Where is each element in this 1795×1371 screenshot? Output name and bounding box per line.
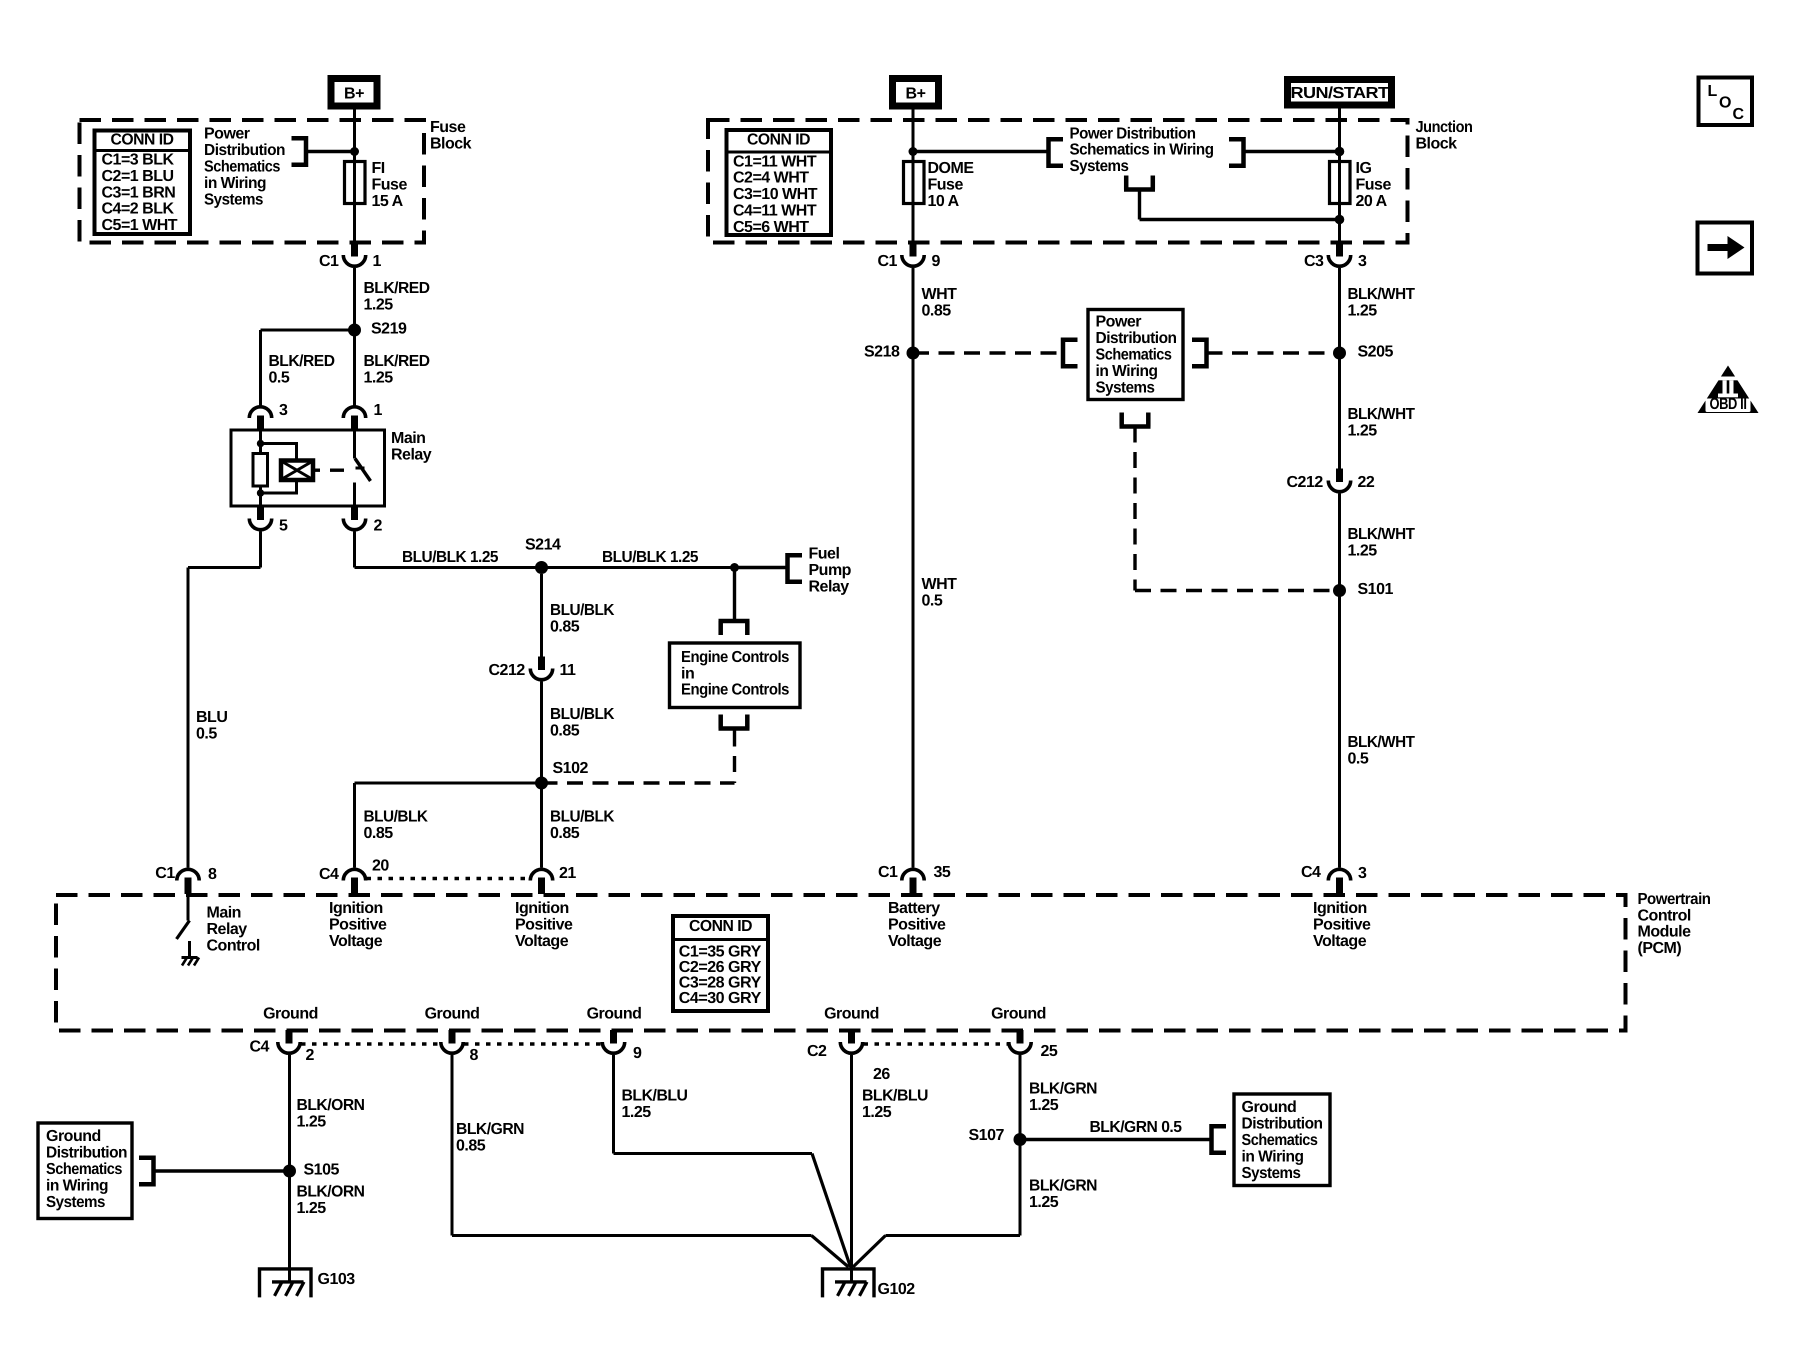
svg-text:BLK/GRN: BLK/GRN <box>456 1121 524 1138</box>
dotted link: PCM pins 2-8 <box>301 1042 440 1045</box>
svg-text:C1=35 GRY: C1=35 GRY <box>679 943 762 960</box>
relay coil (X box) <box>281 461 313 481</box>
connector C1 pin 35 (PCM, Battery Positive Voltage) <box>902 869 924 880</box>
wire: pin 8 run right <box>452 1234 812 1237</box>
svg-text:BLK/WHT: BLK/WHT <box>1348 406 1416 423</box>
svg-text:BLK/GRN 0.5: BLK/GRN 0.5 <box>1090 1119 1183 1136</box>
svg-text:S107: S107 <box>969 1127 1005 1144</box>
svg-text:Schematics: Schematics <box>1096 347 1173 364</box>
svg-text:G103: G103 <box>318 1271 356 1288</box>
wire: B+ to DOME fuse and connector C1-9 <box>912 110 915 244</box>
svg-text:BLU/BLK 1.25: BLU/BLK 1.25 <box>402 549 499 566</box>
splice S107 <box>1014 1133 1027 1146</box>
svg-text:BLK/ORN: BLK/ORN <box>297 1184 365 1201</box>
wire: bracket down and across to IG fuse output <box>1138 190 1141 220</box>
connector pin 5 of Main Relay <box>257 506 264 520</box>
connector pin 9 (PCM Ground) <box>610 1030 617 1044</box>
svg-text:22: 22 <box>1358 474 1375 491</box>
relay mechanical link (dashed) <box>313 469 320 472</box>
svg-text:Fuse: Fuse <box>1356 177 1392 194</box>
splice S219 <box>348 324 361 337</box>
svg-text:C212: C212 <box>489 662 526 679</box>
connector C1 pin 9 (junction block) <box>910 243 917 257</box>
svg-text:Ground: Ground <box>263 1006 318 1023</box>
svg-text:C4=2 BLK: C4=2 BLK <box>102 201 175 218</box>
svg-text:BLK/RED: BLK/RED <box>364 353 430 370</box>
svg-text:Ground: Ground <box>587 1006 642 1023</box>
svg-text:OBD II: OBD II <box>1710 396 1747 413</box>
reference box Engine Controls in Engine Controls <box>670 643 801 708</box>
relay switch contact (from pin 1) <box>353 430 356 459</box>
svg-text:1: 1 <box>373 253 382 270</box>
connector table CONN ID (junction block) <box>727 130 832 235</box>
svg-text:35: 35 <box>934 864 951 881</box>
relay coil feed wire (pin 3 internal) <box>259 430 262 454</box>
fuse FI 15A symbol <box>345 162 366 204</box>
svg-text:BLU/BLK: BLU/BLK <box>364 809 429 826</box>
svg-text:3: 3 <box>1358 253 1367 270</box>
wire: pin 8 diagonal to G102 <box>812 1236 849 1268</box>
svg-text:C4: C4 <box>250 1039 270 1056</box>
svg-text:C2=26 GRY: C2=26 GRY <box>679 959 762 976</box>
connector C212 pin 11 <box>538 657 545 671</box>
svg-text:25: 25 <box>1041 1043 1058 1060</box>
svg-text:0.85: 0.85 <box>550 723 580 740</box>
svg-text:1: 1 <box>374 402 383 419</box>
svg-text:1.25: 1.25 <box>1029 1097 1059 1114</box>
splice S214 <box>535 561 548 574</box>
svg-text:BLK/WHT: BLK/WHT <box>1348 286 1416 303</box>
off-page bracket to Fuel Pump Relay <box>788 553 803 584</box>
svg-text:0.85: 0.85 <box>550 825 580 842</box>
wire: S107 leg run left <box>886 1234 1021 1237</box>
svg-text:26: 26 <box>873 1066 890 1083</box>
connector pin 25 (PCM Ground) <box>1017 1030 1024 1044</box>
svg-text:1.25: 1.25 <box>297 1114 327 1131</box>
reference box Ground Distribution Schematics in Wiring Systems (right) <box>1234 1094 1330 1186</box>
svg-text:(PCM): (PCM) <box>1638 940 1682 957</box>
svg-text:C1: C1 <box>878 864 898 881</box>
off-page bracket (left) of Power Distribution box <box>1063 338 1078 369</box>
fuse IG 20A symbol <box>1330 162 1351 204</box>
wire: RUN/START feed to bracket <box>1244 150 1340 153</box>
svg-text:21: 21 <box>559 865 576 882</box>
svg-text:C212: C212 <box>1287 474 1324 491</box>
svg-text:C2: C2 <box>807 1043 827 1060</box>
wire: C1-9 to S218 (WHT) <box>912 268 915 353</box>
svg-text:1.25: 1.25 <box>622 1104 652 1121</box>
svg-text:BLK/GRN: BLK/GRN <box>1029 1081 1097 1098</box>
svg-text:Block: Block <box>1416 136 1458 153</box>
wire: pin 8 down (BLK/GRN) <box>451 1055 454 1236</box>
svg-text:S102: S102 <box>553 760 589 777</box>
svg-text:BLK/ORN: BLK/ORN <box>297 1097 365 1114</box>
dashed wire: bracket to S205 <box>1207 351 1340 354</box>
wire: B+ to FI fuse and connector C1-1 <box>353 110 356 244</box>
resistor (relay coil suppression) <box>253 454 268 487</box>
connector pin 21 (PCM, Ignition Positive Voltage) <box>530 869 552 880</box>
svg-text:C1: C1 <box>319 253 339 270</box>
dotted link: PCM pins 20-21 <box>367 877 530 880</box>
svg-text:Relay: Relay <box>391 447 432 464</box>
svg-text:Systems: Systems <box>1096 379 1156 396</box>
svg-text:Fuse: Fuse <box>430 119 466 136</box>
connector C4 pin 20 (PCM, Ignition Positive Voltage) <box>343 869 365 880</box>
svg-text:CONN ID: CONN ID <box>747 132 810 149</box>
svg-text:Positive: Positive <box>329 917 387 934</box>
svg-text:Voltage: Voltage <box>888 933 942 950</box>
svg-text:8: 8 <box>470 1047 479 1064</box>
svg-text:Module: Module <box>1638 924 1692 941</box>
svg-text:in Wiring: in Wiring <box>46 1177 108 1194</box>
off-page bracket (right) of Power Distribution box <box>1192 338 1207 369</box>
dashed wire: Engine Controls down <box>733 731 736 784</box>
svg-text:15 A: 15 A <box>372 193 404 210</box>
svg-text:Systems: Systems <box>1242 1165 1302 1182</box>
power feed RUN/START terminal <box>1288 80 1392 106</box>
connector table CONN ID (PCM) <box>673 916 768 1011</box>
wire: C212-22 down to S101 <box>1338 494 1341 591</box>
svg-text:Positive: Positive <box>515 917 573 934</box>
connector table CONN ID (fuse block) <box>95 131 191 235</box>
connector pin 8 (PCM Ground) <box>449 1030 456 1044</box>
relay internal junction upper <box>257 440 264 447</box>
svg-text:BLK/RED: BLK/RED <box>364 280 430 297</box>
svg-text:Fuel: Fuel <box>809 546 840 563</box>
wire: relay pin 2 down <box>353 532 356 568</box>
svg-text:Voltage: Voltage <box>1313 933 1367 950</box>
wire: S214 down to C212-11 (BLU/BLK) <box>540 574 543 662</box>
power feed B+ terminal (junction block) <box>893 79 939 107</box>
splice S218 <box>907 347 920 360</box>
svg-text:C2=1 BLU: C2=1 BLU <box>102 168 174 185</box>
svg-text:3: 3 <box>1358 865 1367 882</box>
svg-text:BLU/BLK 1.25: BLU/BLK 1.25 <box>602 549 699 566</box>
svg-text:Voltage: Voltage <box>515 933 569 950</box>
off-page bracket to Power Distribution Schematics (junction block) <box>1049 137 1064 168</box>
connector pin 2 of Main Relay <box>351 506 358 520</box>
junction dot on IG fuse output <box>1335 215 1345 225</box>
svg-text:5: 5 <box>279 518 288 535</box>
svg-text:0.85: 0.85 <box>922 303 952 320</box>
svg-text:CONN ID: CONN ID <box>689 918 752 935</box>
svg-text:BLU: BLU <box>196 709 227 726</box>
svg-text:B+: B+ <box>344 86 364 103</box>
svg-text:BLU/BLK: BLU/BLK <box>550 706 615 723</box>
svg-text:1.25: 1.25 <box>1029 1194 1059 1211</box>
svg-text:1.25: 1.25 <box>1348 423 1378 440</box>
ground G103 <box>260 1269 312 1298</box>
svg-text:S205: S205 <box>1358 344 1394 361</box>
svg-text:C3=10 WHT: C3=10 WHT <box>733 186 818 203</box>
wire: C1-1 to S219 (BLK/RED) <box>353 268 356 330</box>
reference box Ground Distribution Schematics in Wiring Systems (left) <box>38 1123 132 1219</box>
svg-text:C1=11 WHT: C1=11 WHT <box>733 153 817 170</box>
relay internal junction lower <box>257 489 264 496</box>
fuse DOME 10A symbol <box>904 162 925 204</box>
wire: pin 9 diagonal to G102 <box>812 1154 851 1268</box>
svg-text:BLU/BLK: BLU/BLK <box>550 602 615 619</box>
svg-text:C1: C1 <box>878 253 898 270</box>
svg-text:Ignition: Ignition <box>329 900 383 917</box>
icon forward arrow box <box>1698 223 1753 274</box>
svg-text:Distribution: Distribution <box>204 142 285 159</box>
svg-text:Battery: Battery <box>888 900 940 917</box>
svg-text:Control: Control <box>207 938 260 955</box>
wire: S107 to Ground Distribution bracket (BLK/GRN) <box>1020 1138 1211 1141</box>
svg-text:0.5: 0.5 <box>269 370 290 387</box>
svg-text:Ground: Ground <box>1242 1099 1297 1116</box>
svg-text:Ignition: Ignition <box>515 900 569 917</box>
wire: pin 25 down to S107 (BLK/GRN) <box>1019 1055 1022 1236</box>
svg-text:BLU/BLK: BLU/BLK <box>550 809 615 826</box>
svg-text:B+: B+ <box>906 86 926 103</box>
svg-text:0.5: 0.5 <box>922 593 943 610</box>
svg-text:S219: S219 <box>371 321 407 338</box>
splice S101 <box>1333 584 1346 597</box>
splice S105 <box>283 1165 296 1178</box>
dashed wire: box down to S101 level <box>1133 427 1136 591</box>
svg-text:1.25: 1.25 <box>364 370 394 387</box>
svg-text:C: C <box>1733 106 1745 123</box>
relay switch blade <box>355 459 371 482</box>
svg-text:1.25: 1.25 <box>1348 303 1378 320</box>
svg-text:Voltage: Voltage <box>329 933 383 950</box>
svg-text:Ground: Ground <box>824 1006 879 1023</box>
svg-text:Ground: Ground <box>991 1006 1046 1023</box>
wire: Ground Distribution bracket to S105 <box>154 1169 290 1172</box>
svg-text:C1=3 BLK: C1=3 BLK <box>102 152 175 169</box>
svg-text:Block: Block <box>430 136 472 153</box>
power feed B+ terminal (fuse block) <box>331 79 377 107</box>
svg-text:S101: S101 <box>1358 581 1394 598</box>
svg-text:10 A: 10 A <box>928 193 960 210</box>
svg-text:1.25: 1.25 <box>297 1200 327 1217</box>
wire: C212-11 down to S102 <box>540 682 543 784</box>
wire: RUN/START to IG fuse and connector C3-3 <box>1338 109 1341 244</box>
connector pin 3 of Main Relay <box>249 407 271 418</box>
icon LOC box <box>1699 78 1753 126</box>
svg-text:S105: S105 <box>304 1162 340 1179</box>
svg-text:in Wiring: in Wiring <box>1096 363 1158 380</box>
svg-text:G102: G102 <box>878 1281 916 1298</box>
dotted link: PCM pins 8-9 <box>464 1042 602 1045</box>
svg-text:C2=4 WHT: C2=4 WHT <box>733 170 809 187</box>
connector pin 1 of Main Relay <box>343 407 365 418</box>
ground G102 <box>823 1269 875 1298</box>
svg-text:Power: Power <box>1096 314 1142 331</box>
connector C1 pin 1 (fuse block output) <box>351 243 358 257</box>
svg-text:Main: Main <box>391 430 425 447</box>
svg-text:8: 8 <box>208 866 217 883</box>
svg-text:BLK/BLU: BLK/BLU <box>622 1088 688 1105</box>
wire: S219 down to relay pin 1 <box>353 330 356 406</box>
PCM internal chassis ground <box>182 956 198 959</box>
svg-text:Systems: Systems <box>204 191 264 208</box>
relay coil branch wiring <box>261 444 297 494</box>
svg-text:C5=6 WHT: C5=6 WHT <box>733 219 809 236</box>
icon OBD II triangle <box>1698 366 1759 414</box>
splice S102 <box>535 777 548 790</box>
junction dot on RUN/START feed <box>1335 147 1345 157</box>
svg-text:Engine Controls: Engine Controls <box>681 682 790 699</box>
reference box Power Distribution Schematics in Wiring Systems <box>1088 310 1183 400</box>
wire: fuse block feed to Power Distribution bracket <box>307 150 355 153</box>
svg-text:WHT: WHT <box>922 286 958 303</box>
svg-text:20: 20 <box>372 858 389 875</box>
svg-text:2: 2 <box>306 1047 315 1064</box>
svg-text:0.5: 0.5 <box>196 726 217 743</box>
wire: pin 9 down (BLK/BLU) <box>612 1055 615 1154</box>
svg-text:3: 3 <box>279 402 288 419</box>
svg-text:1.25: 1.25 <box>862 1104 892 1121</box>
svg-text:2: 2 <box>374 518 383 535</box>
wire: S102 branch left <box>355 782 542 785</box>
PCM internal switch (Main Relay Control) <box>187 895 190 921</box>
svg-text:BLK/BLU: BLK/BLU <box>862 1088 928 1105</box>
svg-text:Positive: Positive <box>1313 917 1371 934</box>
svg-text:IG: IG <box>1356 160 1372 177</box>
svg-text:BLK/WHT: BLK/WHT <box>1348 734 1416 751</box>
wire: tap to Fuel Pump Relay bracket <box>735 566 788 569</box>
off-page bracket to Ground Distribution Schematics (right) <box>1212 1124 1227 1155</box>
wire: C3-3 to S205 (BLK/WHT) <box>1338 268 1341 353</box>
splice S205 <box>1333 347 1346 360</box>
svg-text:in Wiring: in Wiring <box>204 175 266 192</box>
svg-text:Systems: Systems <box>1070 158 1130 175</box>
svg-text:0.5: 0.5 <box>1348 751 1369 768</box>
svg-text:in: in <box>681 665 694 682</box>
junction dot: fuel pump relay tap <box>730 563 739 572</box>
svg-text:C4: C4 <box>319 866 339 883</box>
svg-text:Schematics in Wiring: Schematics in Wiring <box>1070 142 1214 159</box>
wire: S219 branch left <box>261 329 355 332</box>
off-page bracket (bottom) of Engine Controls <box>719 715 750 729</box>
svg-text:11: 11 <box>560 662 577 679</box>
svg-text:Positive: Positive <box>888 917 946 934</box>
connector C3 pin 3 <box>1336 243 1343 257</box>
svg-text:9: 9 <box>633 1045 642 1062</box>
svg-text:Distribution: Distribution <box>46 1145 127 1162</box>
svg-text:C4=11 WHT: C4=11 WHT <box>733 203 817 220</box>
off-page bracket to Power Distribution Schematics (fuse block) <box>292 136 307 167</box>
connector C4 pin 3 (PCM, Ignition Positive Voltage) <box>1328 869 1350 880</box>
svg-text:Relay: Relay <box>809 579 850 596</box>
svg-text:Relay: Relay <box>207 921 248 938</box>
svg-text:WHT: WHT <box>922 576 958 593</box>
svg-text:0.85: 0.85 <box>364 825 394 842</box>
connector C212 pin 22 <box>1336 469 1343 483</box>
dotted link: PCM pins 26-25 <box>864 1042 1009 1045</box>
svg-text:C4: C4 <box>1301 864 1321 881</box>
relay K1 Main Relay box <box>231 430 385 506</box>
svg-text:Engine Controls: Engine Controls <box>681 649 790 666</box>
svg-text:Power Distribution: Power Distribution <box>1070 125 1196 142</box>
svg-text:BLK/GRN: BLK/GRN <box>1029 1178 1097 1195</box>
connector C1 pin 8 (PCM, Main Relay Control) <box>177 869 199 880</box>
svg-text:9: 9 <box>932 253 941 270</box>
svg-text:Control: Control <box>1638 907 1691 924</box>
svg-text:C3: C3 <box>1304 253 1324 270</box>
svg-text:Fuse: Fuse <box>372 177 408 194</box>
svg-text:S214: S214 <box>525 537 561 554</box>
svg-text:Powertrain: Powertrain <box>1638 891 1711 908</box>
svg-text:C3=28 GRY: C3=28 GRY <box>679 975 762 992</box>
svg-text:Ground: Ground <box>46 1128 101 1145</box>
svg-text:Main: Main <box>207 905 241 922</box>
dashed wire: across to S101 <box>1135 589 1340 592</box>
off-page bracket to Ground Distribution Schematics (left) <box>139 1156 154 1187</box>
wire: tap down to Engine Controls bracket <box>733 568 736 621</box>
svg-text:BLK/WHT: BLK/WHT <box>1348 526 1416 543</box>
svg-text:Power: Power <box>204 125 250 142</box>
svg-text:L: L <box>1708 83 1718 100</box>
svg-text:Schematics: Schematics <box>204 158 281 175</box>
svg-text:Schematics: Schematics <box>46 1161 123 1178</box>
svg-text:1.25: 1.25 <box>1348 543 1378 560</box>
svg-text:Ignition: Ignition <box>1313 900 1367 917</box>
svg-text:Ground: Ground <box>425 1006 480 1023</box>
svg-text:FI: FI <box>372 160 385 177</box>
svg-text:O: O <box>1719 95 1731 112</box>
svg-text:Fuse: Fuse <box>928 177 964 194</box>
svg-text:Distribution: Distribution <box>1242 1116 1323 1133</box>
connector C4 pin 2 (PCM Ground) <box>286 1030 293 1044</box>
wire: branch down to PCM C4-20 <box>353 783 356 868</box>
svg-text:1.25: 1.25 <box>364 297 394 314</box>
svg-text:in Wiring: in Wiring <box>1242 1148 1304 1165</box>
off-page bracket (top) to Engine Controls <box>719 621 750 635</box>
junction dot on B+ feed (fuse block) <box>350 147 359 156</box>
wire: S219 down to relay pin 3 <box>259 330 262 406</box>
wire: S218 down to PCM C1-35 (WHT) <box>912 353 915 868</box>
wire: relay pin 5 down (BLU) <box>259 532 262 568</box>
svg-text:C4=30 GRY: C4=30 GRY <box>679 990 762 1007</box>
wire: S107 leg diagonal to G102 <box>853 1236 886 1268</box>
svg-text:RUN/START: RUN/START <box>1291 85 1390 102</box>
wire: C4-2 down to S105 and G103 (BLK/ORN) <box>288 1055 291 1282</box>
relay internal wire lower <box>259 486 262 506</box>
wire: pin 9 run right <box>614 1152 813 1155</box>
wire: DOME feed to Power Distribution bracket <box>913 150 1049 153</box>
junction block enclosure (dashed) <box>708 120 1408 243</box>
wire: pin 5 run left <box>188 566 261 569</box>
svg-text:S218: S218 <box>864 344 900 361</box>
dashed wire: S218 to Power Distribution bracket <box>913 351 1063 354</box>
svg-text:C1: C1 <box>155 865 175 882</box>
module enclosure Powertrain Control Module (dashed) <box>56 895 1626 1031</box>
svg-text:C5=1 WHT: C5=1 WHT <box>102 217 178 234</box>
svg-text:DOME: DOME <box>928 160 975 177</box>
svg-text:Junction: Junction <box>1416 119 1473 136</box>
svg-text:20 A: 20 A <box>1356 193 1388 210</box>
wire: S102 down to PCM pin 21 <box>540 783 543 868</box>
wire: S101 down to PCM C4-3 (BLK/WHT) <box>1338 591 1341 868</box>
off-page bracket (right) of junction block label <box>1229 137 1244 168</box>
wire: left drop to PCM C1-8 <box>187 568 190 868</box>
fuse block enclosure (dashed) <box>80 120 425 243</box>
svg-text:Systems: Systems <box>46 1194 106 1211</box>
svg-text:Distribution: Distribution <box>1096 330 1177 347</box>
junction dot on B+ feed (junction block) <box>909 147 918 156</box>
off-page bracket (lower) of Power Distribution label <box>1124 176 1155 190</box>
svg-text:Pump: Pump <box>809 562 852 579</box>
svg-text:0.85: 0.85 <box>550 619 580 636</box>
wire: S205 down to C212-22 <box>1338 353 1341 469</box>
svg-text:0.85: 0.85 <box>456 1138 486 1155</box>
relay switch lower contact (to pin 2) <box>353 483 356 507</box>
svg-text:BLK/RED: BLK/RED <box>269 353 335 370</box>
